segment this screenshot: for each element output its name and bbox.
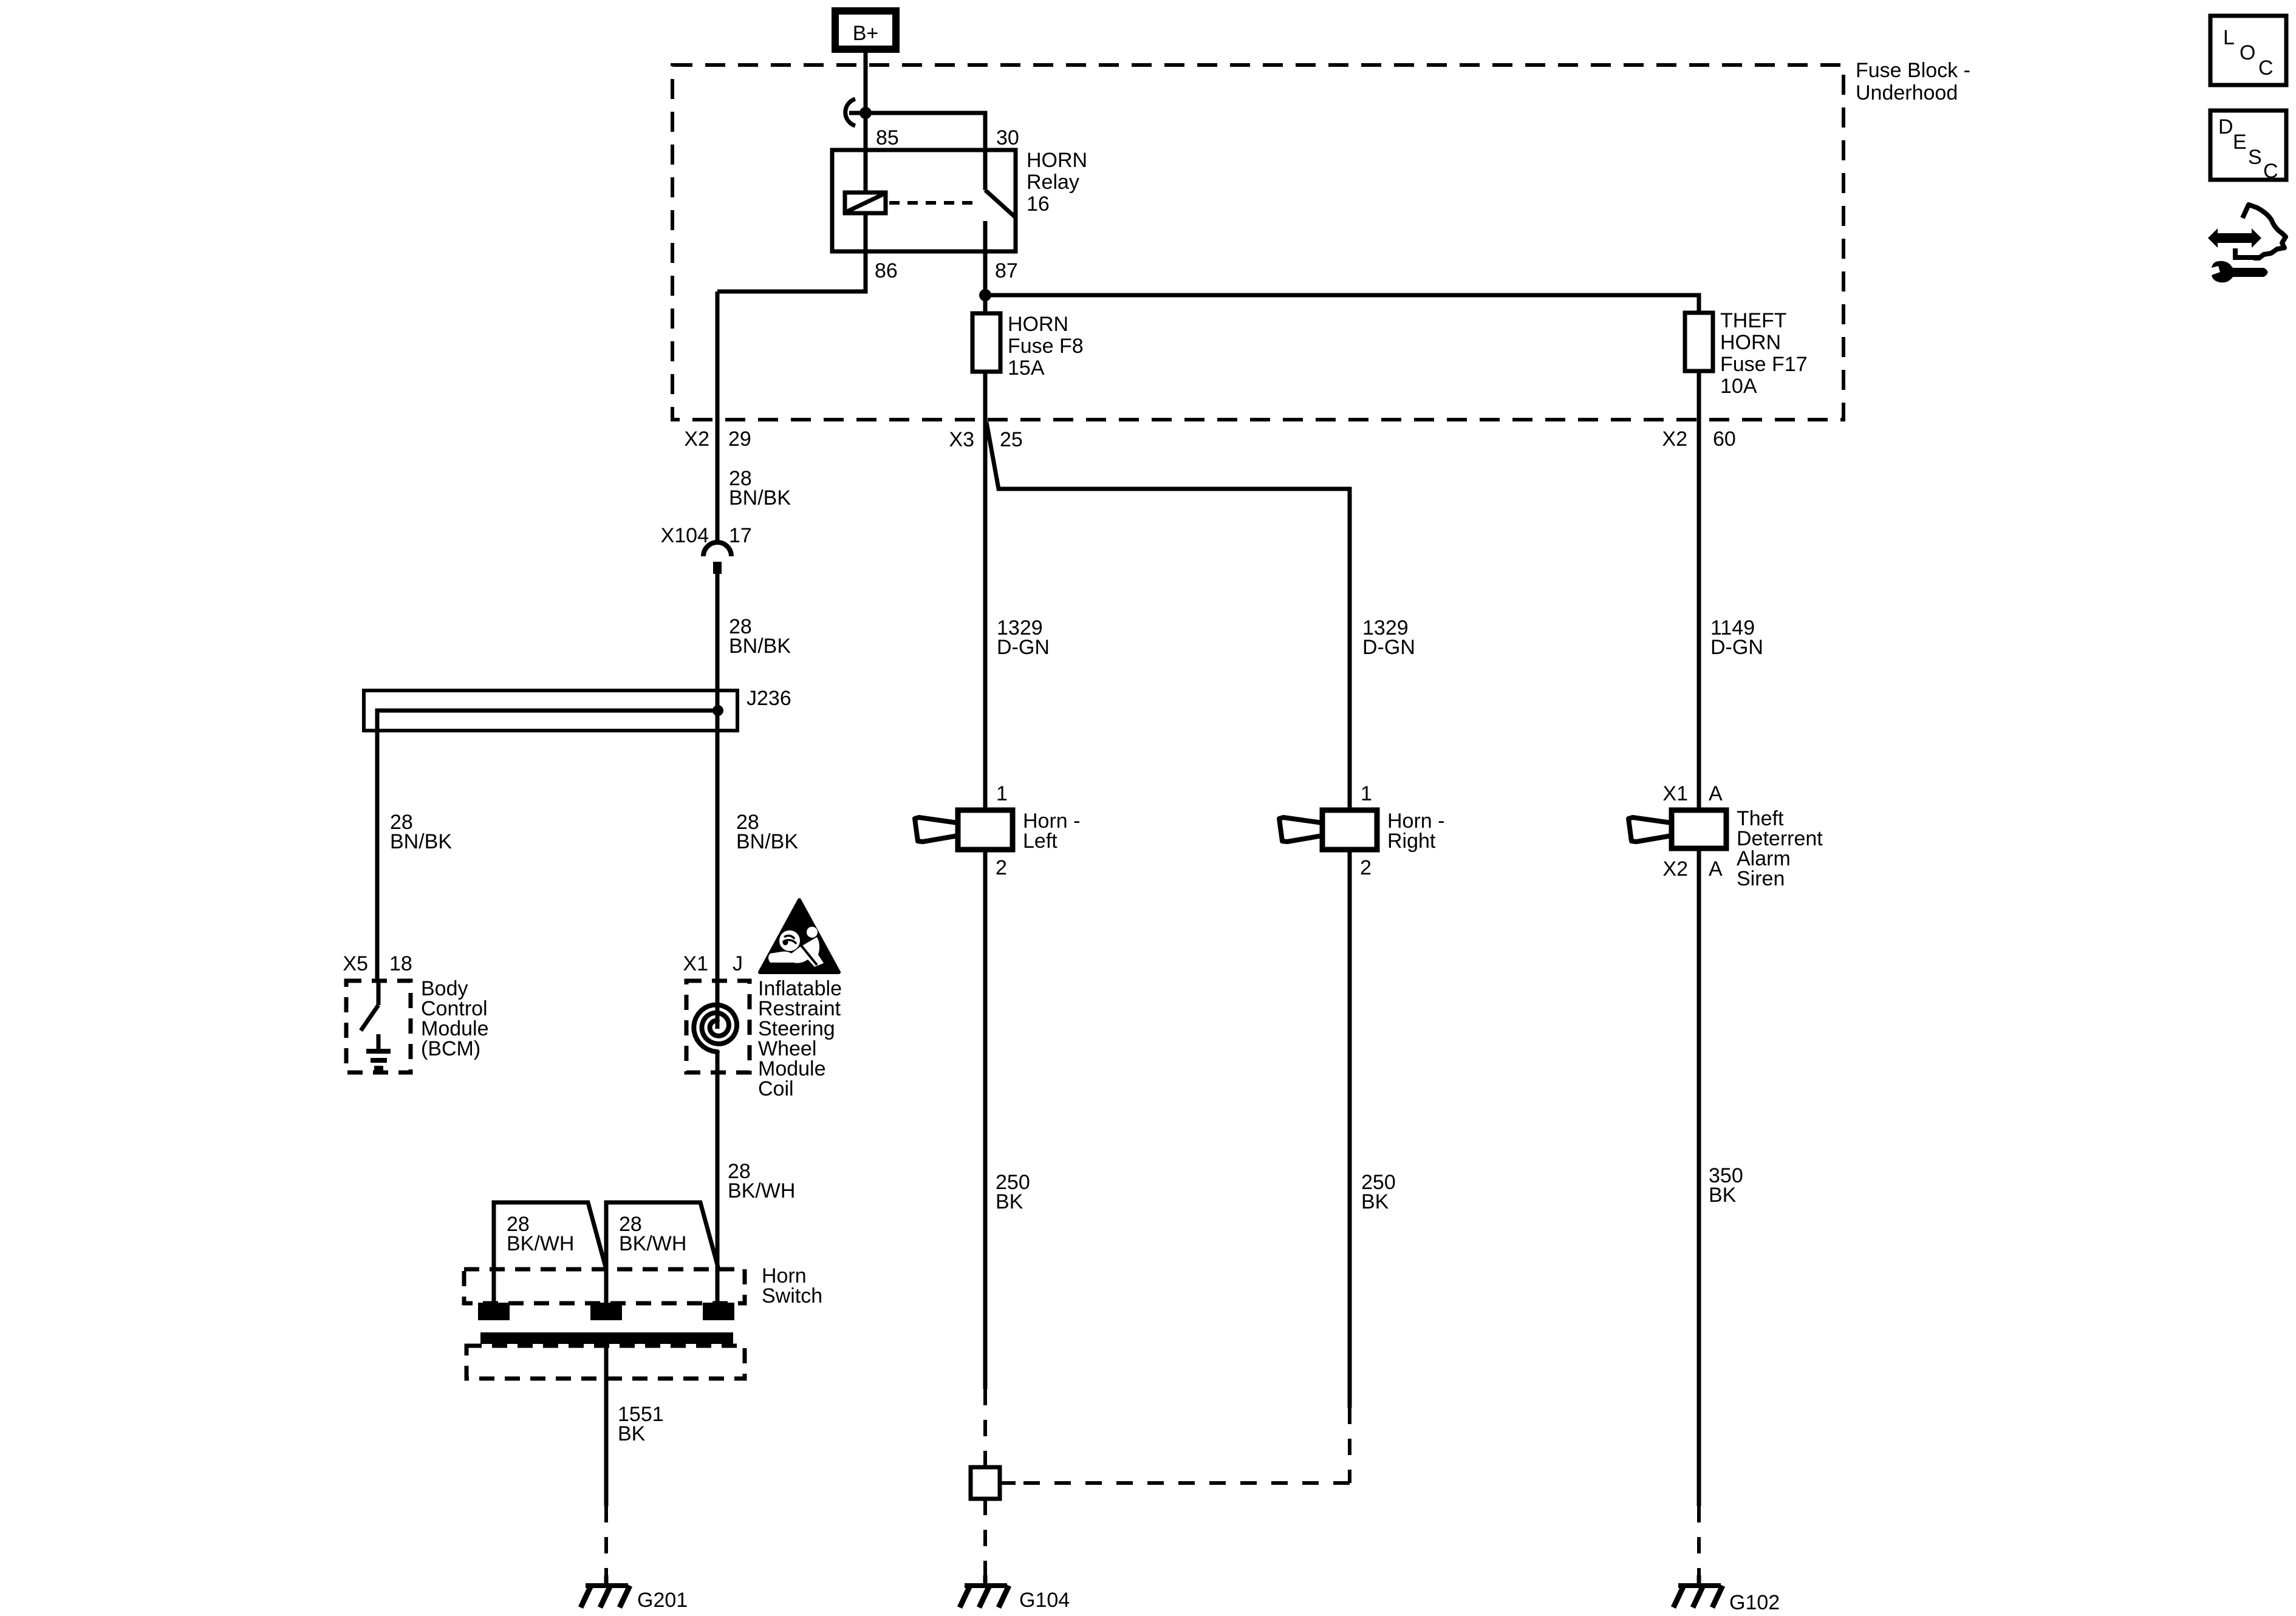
- svg-text:J: J: [733, 952, 743, 975]
- wire label 28 BN/BK left branch: [390, 811, 452, 853]
- svg-text:Siren: Siren: [1737, 867, 1785, 890]
- wire label 350 BK: [1709, 1164, 1743, 1207]
- horn fuse label: [1008, 313, 1084, 380]
- svg-text:Coil: Coil: [758, 1077, 794, 1100]
- svg-text:BK/WH: BK/WH: [728, 1179, 795, 1202]
- svg-text:X3: X3: [949, 428, 974, 451]
- node J236: [712, 705, 723, 716]
- relay coil lower wire: [864, 213, 868, 251]
- relay actuation dashed link: [889, 201, 977, 205]
- horn switch contact loop 1: [494, 1202, 606, 1304]
- svg-text:1: 1: [996, 782, 1008, 805]
- svg-text:A: A: [1709, 782, 1723, 805]
- svg-text:C: C: [2263, 160, 2278, 183]
- body control module dashed box: [346, 981, 411, 1072]
- svg-text:Right: Right: [1387, 830, 1436, 853]
- horn switch fixed contact pads: [478, 1303, 734, 1320]
- wire junction 87 to theft fuse: [985, 295, 1699, 313]
- svg-text:Fuse Block -: Fuse Block -: [1856, 59, 1970, 82]
- battery feed B+ terminal: [835, 11, 896, 49]
- wrench icon: [2212, 261, 2268, 283]
- svg-text:X1: X1: [1662, 782, 1688, 805]
- svg-text:87: 87: [995, 259, 1018, 282]
- connector X1 J labels: [683, 952, 743, 975]
- wire label 28 BN/BK upper: [729, 467, 791, 510]
- horn fuse F8: [972, 313, 1000, 372]
- inline connector X104: [703, 542, 731, 574]
- dashed wire horn left down: [983, 1389, 987, 1467]
- siren label: [1737, 807, 1823, 890]
- svg-text:D-GN: D-GN: [1362, 636, 1415, 659]
- svg-text:(BCM): (BCM): [421, 1037, 480, 1060]
- wire label 28 BK/WH loop2: [619, 1213, 686, 1255]
- svg-text:2: 2: [1360, 856, 1372, 879]
- horn switch dashed box: [464, 1269, 745, 1303]
- svg-text:S: S: [2248, 146, 2262, 169]
- vehicle service icon: [2208, 205, 2286, 258]
- wire left branch down to connector X2 29: [716, 291, 720, 543]
- relay switch blade: [985, 190, 1016, 218]
- fuse block label: [1856, 59, 1970, 104]
- airbag warning triangle: [760, 900, 839, 972]
- svg-text:B+: B+: [853, 22, 879, 45]
- wire label 250 BK right: [1361, 1171, 1396, 1213]
- theft horn fuse F17: [1685, 313, 1713, 371]
- svg-text:85: 85: [876, 126, 899, 149]
- svg-text:X2: X2: [1662, 428, 1687, 451]
- svg-text:A: A: [1709, 857, 1723, 881]
- connector X104 17 labels: [661, 524, 752, 547]
- wire X104 to J236: [716, 574, 720, 690]
- svg-text:Fuse F17: Fuse F17: [1720, 353, 1808, 376]
- ground G104: [960, 1575, 1009, 1607]
- wire X3 25 to horn left: [983, 420, 988, 810]
- svg-text:X5: X5: [343, 952, 368, 975]
- horn relay box: [832, 150, 1016, 251]
- svg-text:Switch: Switch: [762, 1284, 822, 1307]
- svg-text:Fuse F8: Fuse F8: [1008, 335, 1084, 358]
- BCM internal ground: [366, 1034, 391, 1068]
- horn switch label: [762, 1264, 822, 1307]
- BCM label: [421, 977, 489, 1060]
- svg-text:60: 60: [1713, 428, 1736, 451]
- connector X3 25 labels: [949, 428, 1022, 451]
- wire B+ to junction: [864, 49, 868, 150]
- svg-text:86: 86: [875, 259, 898, 282]
- fuse block underhood dashed box: [672, 65, 1843, 420]
- svg-text:D-GN: D-GN: [997, 636, 1050, 659]
- wire label 28 BN/BK right branch: [736, 811, 798, 853]
- steering wheel coil dashed box: [686, 981, 750, 1072]
- horn right label: [1387, 810, 1444, 853]
- theft horn fuse label: [1720, 309, 1808, 398]
- svg-text:X1: X1: [683, 952, 708, 975]
- clockspring coil spiral: [694, 1005, 737, 1052]
- coil label: [758, 977, 842, 1100]
- svg-text:2: 2: [996, 856, 1007, 879]
- connector X2 60 labels: [1662, 428, 1735, 451]
- dashed wire to G104: [983, 1499, 987, 1579]
- wire fuse F17 down: [1697, 371, 1701, 810]
- wire label 28 BN/BK mid: [729, 615, 791, 658]
- svg-text:BK: BK: [1361, 1190, 1389, 1213]
- wire through J236: [716, 690, 720, 731]
- wire label 28 BK/WH loop1: [507, 1213, 574, 1255]
- dashed wire to G201: [604, 1506, 608, 1579]
- siren connector X2 A labels: [1662, 857, 1723, 881]
- svg-text:BN/BK: BN/BK: [729, 635, 791, 658]
- horn relay label: [1027, 149, 1087, 216]
- node at B+ wire: [859, 107, 872, 119]
- theft deterrent alarm siren: [1628, 810, 1726, 848]
- wire pin 86 down and left: [717, 251, 866, 291]
- ground G102: [1673, 1575, 1723, 1607]
- branch diagonal to horn right: [986, 422, 1350, 810]
- wire into coil: [716, 731, 720, 1029]
- svg-text:1: 1: [1361, 782, 1372, 805]
- svg-text:10A: 10A: [1720, 375, 1757, 398]
- svg-text:BK: BK: [1709, 1184, 1737, 1207]
- relay coil wire pin 85: [864, 150, 868, 193]
- svg-text:HORN: HORN: [1008, 313, 1068, 336]
- svg-text:Left: Left: [1023, 830, 1057, 853]
- svg-text:BK: BK: [996, 1190, 1023, 1213]
- BCM internal switch: [361, 981, 378, 1031]
- dashed wire horn right down: [1348, 1408, 1351, 1483]
- wire from contact bar down: [604, 1344, 609, 1506]
- svg-text:BK/WH: BK/WH: [507, 1232, 574, 1255]
- svg-text:BN/BK: BN/BK: [736, 830, 798, 853]
- svg-text:BN/BK: BN/BK: [390, 830, 452, 853]
- horn switch movable contact bar: [480, 1332, 733, 1344]
- wire label 250 BK left: [996, 1171, 1030, 1213]
- svg-text:30: 30: [996, 126, 1019, 149]
- svg-text:C: C: [2258, 56, 2274, 80]
- svg-text:X2: X2: [1662, 857, 1688, 881]
- relay switch upper wire pin 30: [983, 150, 988, 190]
- svg-text:G104: G104: [1019, 1589, 1070, 1612]
- svg-text:G201: G201: [637, 1589, 688, 1612]
- svg-text:D-GN: D-GN: [1710, 636, 1763, 659]
- dashed wire to G102: [1697, 1506, 1701, 1579]
- svg-text:BK/WH: BK/WH: [619, 1232, 686, 1255]
- wire label 1149 D-GN: [1710, 616, 1763, 659]
- svg-text:D: D: [2218, 115, 2233, 138]
- svg-text:Underhood: Underhood: [1856, 81, 1958, 104]
- horn switch lower dashed box: [466, 1346, 745, 1379]
- wire junction to relay pin 30: [866, 113, 985, 150]
- wire left branch to BCM: [375, 711, 380, 981]
- wire label 1329 D-GN left: [997, 616, 1050, 659]
- horn left: [915, 810, 1013, 850]
- splice pack J236: [364, 690, 737, 731]
- svg-text:HORN: HORN: [1027, 149, 1087, 172]
- siren connector X1 A labels: [1662, 782, 1723, 805]
- svg-text:25: 25: [1000, 428, 1023, 451]
- DESC legend box: [2210, 111, 2286, 183]
- node at pin 87: [979, 289, 991, 301]
- splice box stub: [1000, 1481, 1016, 1485]
- wire label 1551 BK: [618, 1403, 664, 1445]
- wire label 1329 D-GN right: [1362, 616, 1415, 659]
- svg-text:J236: J236: [747, 687, 791, 710]
- svg-text:G102: G102: [1729, 1591, 1780, 1614]
- LOC legend box: [2210, 16, 2286, 85]
- svg-text:16: 16: [1027, 193, 1050, 216]
- wire label 28 BK/WH main: [728, 1160, 795, 1202]
- wire fuse F8 to connector X3 25: [983, 372, 988, 489]
- svg-text:18: 18: [389, 952, 412, 975]
- continuation hook: [846, 99, 855, 126]
- wire stub to other circuits: [849, 111, 866, 115]
- svg-text:E: E: [2233, 131, 2247, 154]
- svg-text:BN/BK: BN/BK: [729, 486, 791, 510]
- ground G201: [581, 1575, 630, 1607]
- wire horn right down: [1348, 850, 1352, 1408]
- horn switch contact loop 2: [606, 1202, 719, 1304]
- svg-text:L: L: [2223, 26, 2235, 49]
- connector X2 29 labels: [684, 428, 751, 451]
- wire siren down: [1697, 848, 1701, 1506]
- dashed wire horn right to splice: [1016, 1481, 1350, 1485]
- svg-text:Relay: Relay: [1027, 171, 1079, 194]
- horn left label: [1023, 810, 1080, 853]
- svg-text:17: 17: [729, 524, 752, 547]
- horn right: [1279, 810, 1377, 850]
- svg-text:29: 29: [728, 428, 751, 451]
- relay switch lower contact: [983, 221, 988, 251]
- svg-text:HORN: HORN: [1720, 331, 1781, 354]
- svg-text:X104: X104: [661, 524, 709, 547]
- relay coil: [845, 193, 886, 213]
- wire out of coil: [716, 1052, 720, 1304]
- connector X5 18 labels: [343, 952, 412, 975]
- svg-text:X2: X2: [684, 428, 709, 451]
- svg-text:O: O: [2240, 41, 2255, 64]
- svg-text:THEFT: THEFT: [1720, 309, 1787, 332]
- svg-text:BK: BK: [618, 1422, 646, 1445]
- inline splice box: [971, 1467, 1000, 1499]
- svg-text:15A: 15A: [1008, 356, 1045, 380]
- wire horn left down: [983, 850, 988, 1389]
- wire pin 87 down: [983, 251, 988, 313]
